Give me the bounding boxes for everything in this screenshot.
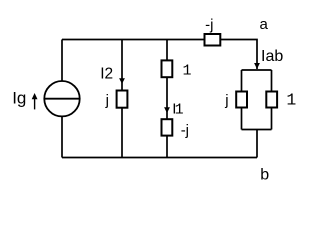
- svg-text:1: 1: [175, 102, 184, 119]
- impedance box 1 (branch I1): [162, 60, 173, 77]
- wire parallel top bar: [242, 69, 272, 71]
- wire left vertical bottom: [61, 116, 63, 157]
- svg-text:a: a: [260, 16, 269, 33]
- wire left vertical top: [61, 40, 63, 82]
- wire branch I1 lower: [166, 136, 168, 158]
- svg-text:b: b: [260, 167, 269, 184]
- svg-text:-j: -j: [205, 17, 213, 34]
- wire parallel center drop: [256, 130, 258, 158]
- wire bottom: [62, 157, 257, 159]
- wire parallel left lower stub: [241, 108, 243, 130]
- current source Ig: [44, 81, 79, 116]
- wire parallel right lower stub: [271, 108, 273, 130]
- wire branch I1 middle: [166, 77, 168, 119]
- wire top right segment: [221, 40, 257, 70]
- svg-text:Ig: Ig: [12, 89, 26, 108]
- impedance box -j series top: [205, 34, 221, 46]
- wire top left segment: [62, 39, 204, 41]
- current arrow I2: [119, 78, 125, 84]
- svg-text:I2: I2: [100, 65, 113, 82]
- impedance box 1 (parallel right): [266, 92, 277, 108]
- impedance box -j (branch I1): [162, 119, 173, 135]
- wire parallel bottom bar: [242, 129, 272, 131]
- impedance box j (parallel left): [236, 92, 247, 108]
- wire branch I2 lower: [121, 108, 123, 158]
- wire parallel right upper stub: [271, 70, 273, 92]
- current arrow Iab: [254, 63, 260, 69]
- svg-text:1: 1: [286, 91, 296, 110]
- wire branch I1 upper: [166, 40, 168, 61]
- current arrow I1: [164, 107, 170, 113]
- svg-text:j: j: [224, 92, 228, 109]
- svg-text:Iab: Iab: [261, 48, 283, 65]
- svg-text:1: 1: [183, 63, 192, 80]
- svg-text:-j: -j: [181, 122, 189, 139]
- impedance box j (branch I2): [117, 91, 128, 108]
- wire parallel left upper stub: [241, 70, 243, 92]
- svg-text:j: j: [105, 92, 109, 109]
- current arrow Ig: [32, 93, 38, 109]
- wire branch I2 upper: [121, 40, 123, 91]
